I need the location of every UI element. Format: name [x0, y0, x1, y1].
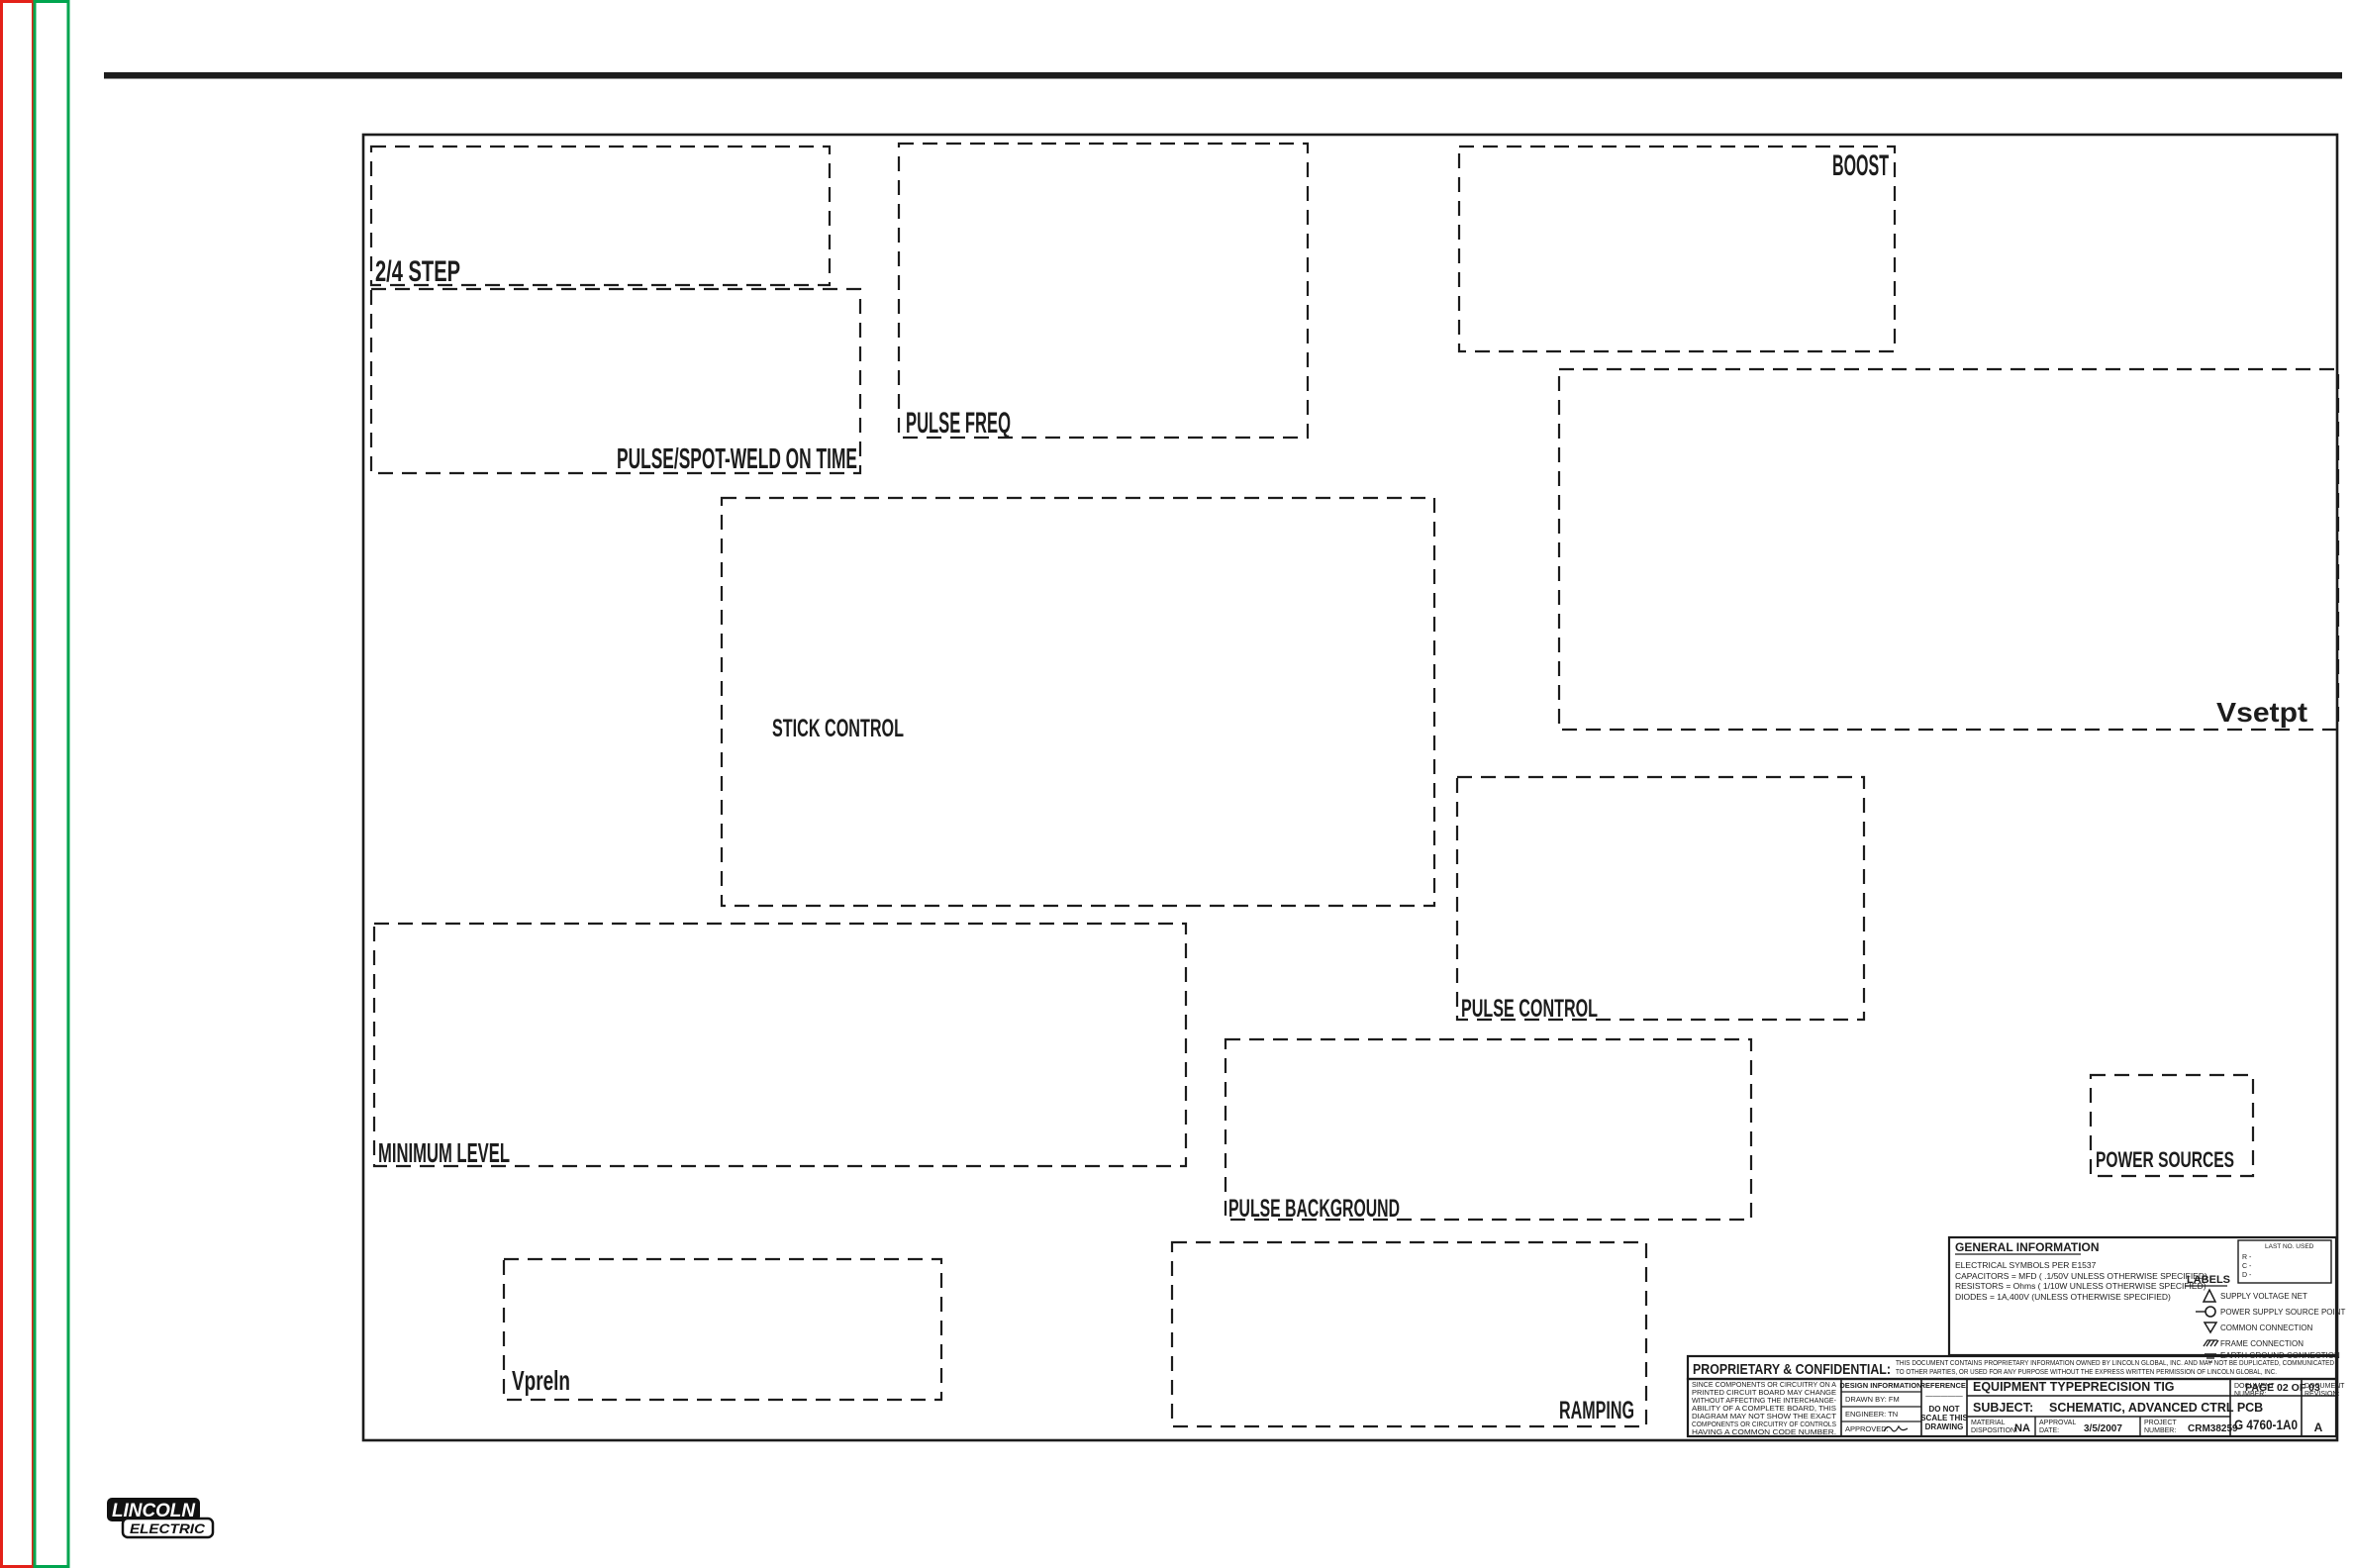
svg-text:LAST NO. USED: LAST NO. USED [2265, 1243, 2314, 1250]
svg-text:Vsetpt: Vsetpt [2216, 697, 2307, 728]
svg-text:POWER SUPPLY SOURCE POINT: POWER SUPPLY SOURCE POINT [2220, 1308, 2346, 1317]
svg-text:PROJECT: PROJECT [2144, 1420, 2177, 1426]
svg-text:SUPPLY VOLTAGE NET: SUPPLY VOLTAGE NET [2220, 1292, 2307, 1301]
svg-text:C -: C - [2242, 1263, 2252, 1270]
svg-text:NUMBER:: NUMBER: [2234, 1391, 2266, 1398]
svg-text:COMMON CONNECTION: COMMON CONNECTION [2220, 1323, 2313, 1332]
svg-text:DATE:: DATE: [2039, 1427, 2059, 1434]
svg-text:GENERAL INFORMATION: GENERAL INFORMATION [1955, 1240, 2100, 1254]
svg-text:PULSE CONTROL: PULSE CONTROL [1461, 995, 1598, 1023]
svg-text:DRAWING: DRAWING [1925, 1422, 1964, 1431]
svg-text:RESISTORS = Ohms ( 1/10W UN: RESISTORS = Ohms ( 1/10W UNLESS OTHERWIS… [1955, 1281, 2206, 1291]
svg-text:POWER SOURCES: POWER SOURCES [2096, 1147, 2234, 1172]
svg-text:NUMBER:: NUMBER: [2144, 1427, 2176, 1434]
svg-text:MATERIAL: MATERIAL [1971, 1420, 2006, 1426]
svg-text:DOCUMENT: DOCUMENT [2234, 1383, 2275, 1390]
svg-text:DOCUMENT: DOCUMENT [2304, 1383, 2345, 1390]
svg-text:SCALE THIS: SCALE THIS [1920, 1414, 1968, 1422]
svg-text:THIS DOCUMENT CONTAINS PROPRIE: THIS DOCUMENT CONTAINS PROPRIETARY INFOR… [1896, 1358, 2334, 1367]
svg-text:CAPACITORS = MFD ( .1/50V: CAPACITORS = MFD ( .1/50V UNLESS OTHERWI… [1955, 1271, 2207, 1281]
svg-text:REFERENCE:: REFERENCE: [1920, 1381, 1969, 1390]
svg-text:PROPRIETARY & CONFIDENTIAL:: PROPRIETARY & CONFIDENTIAL: [1693, 1362, 1891, 1378]
svg-text:STICK CONTROL: STICK CONTROL [772, 715, 904, 742]
svg-text:RAMPING: RAMPING [1559, 1397, 1634, 1424]
svg-text:PULSE/SPOT-WELD ON TIME: PULSE/SPOT-WELD ON TIME [617, 443, 857, 475]
svg-text:DESIGN INFORMATION: DESIGN INFORMATION [1839, 1381, 1921, 1390]
svg-text:SUBJECT:: SUBJECT: [1973, 1401, 2033, 1415]
svg-text:Vpreln: Vpreln [512, 1365, 570, 1396]
svg-text:APPROVED:: APPROVED: [1845, 1424, 1889, 1433]
svg-text:PULSE FREQ: PULSE FREQ [906, 407, 1011, 440]
svg-text:A: A [2314, 1421, 2323, 1434]
svg-text:EQUIPMENT TYPE:: EQUIPMENT TYPE: [1973, 1380, 2087, 1394]
svg-text:MINIMUM LEVEL: MINIMUM LEVEL [378, 1137, 510, 1168]
svg-text:BOOST: BOOST [1832, 149, 1889, 182]
svg-text:G 4760-1A0: G 4760-1A0 [2234, 1417, 2298, 1432]
svg-text:HAVING A COMMON CODE NUMBER.: HAVING A COMMON CODE NUMBER. [1692, 1427, 1836, 1436]
svg-text:R -: R - [2242, 1254, 2252, 1261]
svg-text:DIODES = 1A,400V (UNLESS: DIODES = 1A,400V (UNLESS OTHERWISE SPECI… [1955, 1292, 2171, 1302]
svg-text:3/5/2007: 3/5/2007 [2084, 1423, 2122, 1434]
svg-text:APPROVAL: APPROVAL [2039, 1420, 2076, 1426]
svg-text:D -: D - [2242, 1272, 2252, 1279]
svg-text:TO OTHER PARTIES, OR USED FOR: TO OTHER PARTIES, OR USED FOR ANY PURPOS… [1896, 1367, 2277, 1376]
svg-text:CRM38259: CRM38259 [2188, 1423, 2238, 1434]
svg-text:2/4 STEP: 2/4 STEP [375, 255, 460, 288]
svg-text:REVISION:: REVISION: [2304, 1391, 2339, 1398]
svg-text:DO NOT: DO NOT [1928, 1405, 1959, 1414]
svg-text:DISPOSITION:: DISPOSITION: [1971, 1427, 2017, 1434]
svg-text:PRECISION TIG: PRECISION TIG [2082, 1380, 2174, 1394]
svg-text:NA: NA [2014, 1422, 2030, 1434]
svg-text:LABELS: LABELS [2187, 1274, 2230, 1286]
svg-text:FRAME CONNECTION: FRAME CONNECTION [2220, 1339, 2304, 1348]
svg-text:SCHEMATIC, ADVANCED CTRL PCB: SCHEMATIC, ADVANCED CTRL PCB [2049, 1401, 2263, 1415]
svg-text:—————: ————— [1925, 1391, 1963, 1400]
svg-text:ENGINEER: TN: ENGINEER: TN [1845, 1410, 1898, 1419]
svg-text:PULSE BACKGROUND: PULSE BACKGROUND [1228, 1195, 1400, 1223]
svg-text:DRAWN BY: FM: DRAWN BY: FM [1845, 1395, 1900, 1404]
svg-text:ELECTRICAL SYMBOLS PER E1537: ELECTRICAL SYMBOLS PER E1537 [1955, 1260, 2097, 1270]
svg-text:ELECTRIC: ELECTRIC [130, 1520, 206, 1536]
